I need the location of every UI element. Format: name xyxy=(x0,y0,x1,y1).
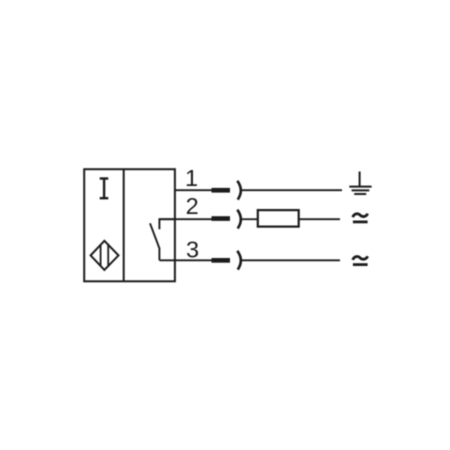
svg-text:2: 2 xyxy=(186,193,199,219)
sensor body outline xyxy=(84,169,175,281)
AC/DC symbol line 3 xyxy=(353,256,368,264)
sensor body divider xyxy=(123,169,125,281)
svg-text:3: 3 xyxy=(186,236,199,262)
wire 2 crimp bar xyxy=(212,216,231,221)
diamond inner line right xyxy=(107,244,109,267)
sensing face diamond xyxy=(91,241,119,270)
load resistor xyxy=(258,210,299,227)
wire 3 segment a xyxy=(159,259,211,261)
wire 3 segment b xyxy=(242,259,340,261)
wire 3 connector arc xyxy=(237,251,241,270)
wire 1 connector arc xyxy=(237,181,241,200)
wire 2 segment c xyxy=(299,218,340,220)
switch fixed contact xyxy=(159,219,175,229)
svg-text:1: 1 xyxy=(185,165,198,191)
wire 1 crimp bar xyxy=(212,188,231,193)
diamond inner line left xyxy=(100,245,102,266)
wire 1 segment b xyxy=(242,189,342,191)
wire 1 segment a xyxy=(175,189,212,191)
switch blade xyxy=(150,223,159,260)
ground symbol xyxy=(349,172,371,195)
wire 2 connector arc xyxy=(237,210,241,229)
wire 3 crimp bar xyxy=(212,258,231,263)
wire 2 segment a xyxy=(159,218,211,220)
wire 2 segment b xyxy=(242,218,258,220)
inductive symbol I xyxy=(100,179,109,199)
AC/DC symbol line 2 xyxy=(353,214,368,222)
